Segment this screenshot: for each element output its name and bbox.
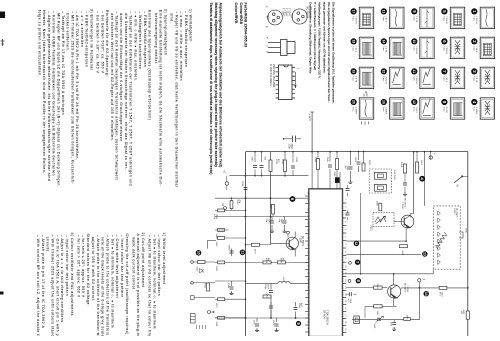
resistor R2574 [263, 258, 271, 264]
svg-text:11: 11 [240, 251, 244, 255]
svg-text:2569: 2569 [298, 303, 300, 309]
plug contact terminal a [223, 170, 229, 190]
svg-text:Mit Regler BP und Spule LZ die: Mit Regler BP und Spule LZ die Doppellin… [56, 13, 60, 187]
node test point 11 [240, 250, 246, 256]
resistor R2604 [400, 162, 407, 173]
wire IC right long [346, 253, 421, 255]
dashed box ceramic filters [369, 169, 395, 193]
svg-text:– Adjust to ● ○ ● to suit view: – Adjust to ● ○ ● to suit viewing condit… [60, 235, 64, 323]
svg-text:16: 16 [382, 100, 386, 104]
svg-text:7 64 V: 7 64 V [445, 76, 447, 83]
svg-text:H = zeilenfrequent, V = bildfr: H = zeilenfrequent, V = bildfrequent (oh… [313, 2, 317, 70]
oscillogram 20 [351, 98, 374, 119]
oscillogram 20 aux pin marks [362, 93, 369, 125]
svg-text:12: 12 [412, 100, 416, 104]
wire left vertical bus 1 [245, 152, 247, 337]
svg-text:2544: 2544 [314, 157, 316, 163]
resistor R2558 [215, 316, 225, 327]
svg-text:2574: 2574 [265, 258, 267, 264]
svg-text:5 ms: 5 ms [352, 107, 354, 112]
svg-text:2 160 H: 2 160 H [445, 16, 447, 24]
connector pin ticks bottom [197, 325, 206, 329]
svg-text:12: 12 [354, 242, 358, 246]
svg-text:1) White level adjustment: 1) White level adjustment [162, 233, 166, 285]
svg-text:2617: 2617 [420, 160, 422, 166]
svg-text:1) Weißabgleich: 1) Weißabgleich [189, 9, 193, 42]
wire horizontal y175.7 [229, 175, 308, 177]
svg-text:T 2606: T 2606 [401, 202, 403, 210]
svg-text:7 160 H: 7 160 H [385, 107, 387, 115]
svg-text:Checking the cut-off point (os: Checking the cut-off point (oscilloscope… [125, 234, 129, 335]
svg-text:1 5 TK: 1 5 TK [385, 46, 387, 53]
resistor R2533 [269, 159, 279, 172]
svg-text:2537: 2537 [269, 204, 271, 210]
svg-text:2533: 2533 [275, 159, 277, 165]
oscillogram 19 [351, 67, 374, 88]
svg-text:– ● ○ ● einstellen: – ● ○ ● einstellen [80, 11, 84, 47]
IC pinout DIP package IC 2520 [269, 64, 300, 100]
svg-text:5 ms: 5 ms [382, 16, 384, 21]
filter block F2613 [354, 316, 360, 324]
svg-text:– Abgleich gegebenenfalls wied: – Abgleich gegebenenfalls wiederholen, b… [47, 11, 51, 181]
svg-text:2 160 H: 2 160 H [354, 107, 356, 115]
svg-text:1 5 TK: 1 5 TK [415, 16, 417, 23]
svg-text:– Attach probe to the collecto: – Attach probe to the collector of the t… [96, 235, 100, 336]
node test point 4 [419, 176, 425, 182]
capacitor C2538 on bus [241, 181, 248, 190]
IC right pin terminals with circles [349, 260, 361, 265]
svg-text:Die Signalformen wurden mit ei: Die Signalformen wurden mit einem Oszill… [332, 2, 336, 104]
svg-text:5 ms: 5 ms [472, 16, 474, 21]
svg-text:5 ms: 5 ms [412, 76, 414, 81]
svg-text:2556: 2556 [215, 266, 217, 272]
svg-text:– Tastkopf am Pin 17 des IC TD: – Tastkopf am Pin 17 des IC TDA 3562 A a… [61, 11, 65, 115]
wire y283 [246, 282, 279, 284]
node test point 12 [354, 241, 360, 247]
svg-text:– Tastkopf an den Kollektor de: – Tastkopf an den Kollektor desjenigen T… [115, 11, 119, 180]
svg-text:Die angegebenen Spannungen sin: Die angegebenen Spannungen sind mit eine… [327, 2, 331, 102]
oscillogram 10 [411, 37, 434, 58]
wire loop right of DL [459, 232, 463, 238]
svg-text:L 4577: L 4577 [453, 208, 455, 215]
wire y262.4 mid [246, 261, 309, 263]
oscillogram 16 [381, 98, 404, 119]
resistor R2556 [215, 261, 225, 272]
black marker M [335, 177, 340, 183]
svg-text:– Set ● to minimum, nominal ○,: – Set ● to minimum, nominal ○, ● to maxi… [110, 235, 114, 328]
svg-text:Colour/RGB: Colour/RGB [239, 3, 243, 25]
wire +12V supply top bus [246, 151, 468, 153]
node test point 9 [296, 321, 301, 326]
svg-text:2 160 H: 2 160 H [475, 107, 477, 115]
oscillogram 12 [411, 98, 434, 119]
svg-text:– bei Geräten 5/20″: ca. 550 V: – bei Geräten 5/20″: ca. 550 V [100, 11, 104, 73]
svg-text:Standard values for the G2 vol: Standard values for the G2 voltage: [86, 234, 90, 307]
svg-text:20: 20 [351, 100, 355, 104]
svg-text:13: 13 [423, 252, 427, 256]
coil L2575 [278, 277, 290, 283]
plug contact terminal b [221, 203, 227, 210]
svg-text:5 ms: 5 ms [352, 46, 354, 51]
svg-text:Meßbedingungen: FUBK-Testbild,: Meßbedingungen: FUBK-Testbild, Netzspann… [318, 2, 322, 79]
resistor R2603 [362, 160, 370, 171]
transistor T2608 [388, 273, 408, 306]
node test point 14 [424, 291, 429, 296]
svg-text:– Am IC TDA 3562 A Pin 1 mit P: – Am IC TDA 3562 A Pin 1 mit Pin 5 und P… [75, 11, 79, 160]
terminal circle g [418, 279, 425, 282]
resistor R2534 [215, 229, 225, 240]
svg-text:– ● min. ○ mitte ● max. einste: – ● min. ○ mitte ● max. einstellen [133, 11, 137, 80]
note symbol left edge [1, 39, 5, 46]
svg-text:ändern und die Rückschläge der: ändern und die Rückschläge der 6-stufige… [119, 13, 123, 141]
resistor R2537 [269, 204, 275, 215]
op-amp/IC U2520 TDA 3562 A box [309, 189, 343, 337]
wire right vertical bus [467, 152, 469, 337]
wire +12V feed from card [311, 112, 313, 152]
oscillogram 18 [351, 37, 374, 58]
svg-text:+12 V: +12 V [308, 114, 312, 121]
svg-text:1 5 TK: 1 5 TK [354, 76, 356, 83]
svg-text:– ● max. ○ mitte ● max. einste: – ● max. ○ mitte ● max. einstellen [179, 11, 183, 81]
svg-text:– for sets ≤ 20″: approx. 550: – for sets ≤ 20″: approx. 550 V [81, 235, 85, 298]
svg-text:matic dark current control.: matic dark current control. [131, 237, 135, 291]
registration mark top-left edge [0, 12, 5, 19]
svg-text:Farbe/RGB 29504-055.33: Farbe/RGB 29504-055.33 [244, 3, 248, 48]
svg-text:Eine manuelle Einstellung ist: Eine manuelle Einstellung ist nicht mögl… [159, 10, 163, 186]
svg-text:die Schwarzwerte der flachen G: die Schwarzwerte der flachen Grauschräge… [124, 13, 128, 170]
wire horizontal y210.4 short [215, 209, 246, 211]
terminal circle f [208, 311, 216, 314]
svg-text:14: 14 [382, 40, 386, 44]
svg-text:FSS 2605: FSS 2605 [393, 170, 395, 181]
oscillogram 6 [441, 37, 464, 58]
capacitor C2568 [269, 302, 273, 318]
svg-text:1 5 TK: 1 5 TK [475, 76, 477, 83]
oscillogram 11 [411, 67, 434, 88]
plug contact d [191, 282, 215, 285]
svg-text:10: 10 [196, 251, 200, 255]
svg-text:5 ms: 5 ms [412, 107, 414, 112]
svg-text:18: 18 [351, 40, 355, 44]
svg-text:T 2587: T 2587 [282, 8, 286, 17]
oscillogram 14 [381, 37, 404, 58]
capacitor C2602 [344, 152, 353, 184]
svg-text:– Attach probe to the collecto: – Attach probe to the collectors of the … [106, 235, 110, 336]
resistor R2617 [416, 160, 422, 173]
resistor R2612 [374, 305, 383, 316]
plug contact e (square) [191, 296, 216, 300]
svg-text:BC 548 B: BC 548 B [301, 236, 303, 246]
capacitor C2567 [264, 283, 273, 318]
wire vertical x419.5 [419, 282, 421, 320]
capacitor C2566 [227, 245, 233, 256]
svg-text:3) Einstellungen im Farbkanal: 3) Einstellungen im Farbkanal [89, 9, 93, 70]
bottom wire y319.7 [352, 319, 420, 321]
svg-text:13: 13 [382, 10, 386, 14]
svg-text:15: 15 [382, 70, 386, 74]
resistor R2557 [215, 298, 225, 309]
oscillogram 2 [471, 37, 494, 58]
transistor T2547 [271, 232, 304, 257]
svg-text:– Kontrolle: FUBK-Testbild, Fa: – Kontrolle: FUBK-Testbild, Farbbalken u… [52, 11, 56, 176]
svg-text:5 ms: 5 ms [472, 107, 474, 112]
svg-text:– Weißabgleich kontrollieren: – Weißabgleich kontrollieren [138, 11, 142, 69]
trimmer 2523 dashed box [370, 212, 394, 231]
svg-text:5 ms: 5 ms [472, 76, 474, 81]
svg-text:– bei Geräten > 20″: ca. 660 V: – bei Geräten > 20″: ca. 660 V [96, 11, 100, 73]
capacitor C2571 [272, 318, 279, 332]
svg-text:folge zu prüfen und einzustell: folge zu prüfen und einzustellen. [37, 10, 41, 77]
capacitor C2570 [252, 318, 259, 332]
svg-text:2601: 2601 [354, 157, 356, 163]
svg-text:11: 11 [412, 70, 416, 74]
wire horizontal y216.5 [215, 216, 309, 218]
resistor R2609 [374, 284, 383, 290]
svg-text:2535: 2535 [281, 159, 283, 165]
svg-text:2553: 2553 [196, 267, 198, 273]
svg-text:2539: 2539 [295, 157, 297, 163]
node test point 13 [422, 251, 427, 256]
connector block symbol [190, 314, 195, 324]
oscillogram 13 [381, 7, 404, 28]
svg-text:2549: 2549 [227, 283, 229, 289]
oscillogram 7 [441, 67, 464, 88]
switch H1 [454, 175, 468, 187]
svg-text:note of the black levels of th: note of the black levels of the 6-stage … [101, 237, 105, 336]
svg-text:2) Spannpunktabgleich: 2) Spannpunktabgleich [163, 9, 167, 55]
oscillogram 5 [441, 7, 464, 28]
wire stub row [215, 280, 246, 282]
transistor pinout TO-92 case A (T 2547/T 2567/T 2587) [265, 6, 282, 28]
svg-text:7 160 H: 7 160 H [415, 76, 417, 84]
svg-text:– Set ● to maximum, nominal ○,: – Set ● to maximum, nominal ○, ● to maxi… [152, 235, 156, 329]
capacitor C2616 [346, 185, 350, 196]
svg-text:– Input colour bar test patter: – Input colour bar test pattern [157, 235, 161, 297]
svg-text:circuits.: circuits. [46, 237, 50, 254]
svg-text:2534: 2534 [215, 234, 217, 240]
svg-text:– Check white level adjustment: – Check white level adjustment [115, 235, 119, 298]
svg-text:2566: 2566 [227, 245, 229, 251]
svg-text:5 ms: 5 ms [442, 46, 444, 51]
svg-text:7 64 V: 7 64 V [354, 46, 356, 53]
svg-text:29-504: 29-504 [322, 310, 326, 319]
wire stub row [215, 298, 246, 300]
svg-text:7 160 H: 7 160 H [445, 46, 447, 54]
svg-text:sind.: sind. [170, 13, 174, 23]
svg-text:5 ms: 5 ms [442, 16, 444, 21]
wire stub row [215, 261, 246, 263]
diode D2554 [200, 269, 204, 273]
trimmer C2613 [373, 316, 384, 329]
svg-text:7 64 V: 7 64 V [385, 16, 387, 23]
svg-text:2532: 2532 [236, 200, 238, 206]
transistor T2606 [394, 198, 414, 242]
terminal above T2547 [287, 231, 290, 238]
svg-text:10: 10 [412, 40, 416, 44]
svg-text:2572: 2572 [254, 249, 256, 255]
svg-text:– Adjust VB and VG controls so: – Adjust VB and VG controls so that no c… [148, 235, 152, 336]
node test point 6 [290, 196, 296, 202]
oscillogram 8 [441, 98, 464, 119]
wire stub row [215, 317, 246, 319]
svg-text:– FUBK-Testbild einspeisen: – FUBK-Testbild einspeisen [85, 11, 89, 67]
svg-text:A manual adjustment is not pos: A manual adjustment is not possible as t… [136, 234, 140, 337]
wire IC pin to T2606 emitter [346, 240, 406, 242]
capacitor C2601 [354, 152, 361, 173]
resistor R2532 [230, 200, 240, 209]
svg-text:signal gemessen und können um: signal gemessen und können um ±20 % abwe… [322, 2, 326, 74]
svg-text:5 ms: 5 ms [442, 107, 444, 112]
svg-text:2536: 2536 [215, 242, 217, 248]
capacitor C2611 [346, 292, 356, 304]
capacitor C2563 22n [265, 217, 274, 233]
svg-text:2571: 2571 [272, 320, 274, 326]
resistor R2606 [376, 201, 382, 211]
resistor R2544 [314, 157, 320, 170]
IC top pin 1 stub [311, 152, 313, 189]
svg-text:5 ms: 5 ms [352, 76, 354, 81]
oscillogram 4 [471, 98, 494, 119]
IC left pins [305, 195, 308, 197]
oscillogram 3 [471, 67, 494, 88]
svg-text:Taratura di adattamento dopo l: Taratura di adattamento dopo la sostituz… [209, 3, 213, 175]
svg-text:+D: +D [223, 170, 226, 173]
svg-text:2575: 2575 [282, 277, 284, 283]
svg-text:Colore/RVB: Colore/RVB [234, 3, 238, 24]
svg-text:2576: 2576 [280, 258, 282, 264]
capacitor C2569 [294, 302, 303, 318]
svg-text:Kontrolle des Spannpunktes (Os: Kontrolle des Spannpunktes (Oszilloskop … [148, 10, 152, 120]
svg-text:7 160 H: 7 160 H [354, 16, 356, 24]
resistor R2607 [400, 245, 408, 256]
svg-text:14: 14 [424, 292, 428, 296]
svg-text:– FUBK-Testbild einspeisen: – FUBK-Testbild einspeisen [184, 11, 188, 67]
resistor R2610 [438, 286, 447, 297]
resistor R2572 [252, 243, 260, 254]
svg-text:brücken entfernen.: brücken entfernen. [66, 13, 70, 51]
svg-text:– for sets > 20″: approx. 660: – for sets > 20″: approx. 660 V [76, 235, 80, 298]
svg-text:den höchsten Wert hat und mit: den höchsten Wert hat und mit G2-Regler … [110, 13, 114, 141]
svg-text:7 64 V: 7 64 V [475, 46, 477, 53]
svg-text:adjust to 165 V with G2 contro: adjust to 165 V with G2 control. [91, 237, 95, 302]
wire vertical x413.7 [413, 152, 415, 214]
svg-text:– On the IC TDA 3562 A, short: – On the IC TDA 3562 A, short circuit pi… [55, 235, 59, 336]
wire bottom bus y318 [215, 317, 309, 319]
svg-text:BC 558 B: BC 558 B [305, 7, 309, 19]
resistor R2573 [263, 293, 271, 299]
oscillogram 15 [381, 67, 404, 88]
svg-text:Hinweis: Nach jedem Kartentaus: Hinweis: Nach jedem Kartentausch sind al… [42, 10, 46, 174]
svg-text:T 2547: T 2547 [299, 236, 301, 244]
capacitor C2561 5n6 [260, 152, 266, 176]
resistor R2615 [404, 315, 411, 321]
svg-text:2560: 2560 [251, 157, 253, 163]
registration dash bottom-left edge [0, 292, 4, 295]
svg-text:2609: 2609 [376, 284, 378, 290]
svg-text:2606: 2606 [376, 201, 378, 207]
svg-text:5 ms: 5 ms [472, 46, 474, 51]
svg-text:5 ms: 5 ms [412, 46, 414, 51]
capacitor C2560 [251, 152, 257, 176]
svg-text:– Input colour bar test patter: – Input colour bar test pattern [65, 235, 69, 297]
svg-text:– With trimmer 2523 adjust the: – With trimmer 2523 adjust the until col… [51, 235, 55, 336]
svg-text:– Regler VB und VG so einstell: – Regler VB und VG so einstellen, daß ke… [174, 11, 178, 188]
svg-text:2612: 2612 [376, 311, 378, 317]
svg-text:19: 19 [351, 70, 355, 74]
terminal small circle +12V [429, 151, 435, 160]
plug contact c [191, 261, 194, 264]
svg-text:– Tastkopf an den Kollektoren: – Tastkopf an den Kollektoren der Transi… [129, 11, 133, 186]
svg-text:17: 17 [351, 10, 355, 14]
wire y273.8 [343, 273, 433, 275]
svg-text:100µ: 100µ [264, 284, 266, 290]
resistor R2536 [215, 237, 225, 248]
svg-text:2604: 2604 [400, 162, 402, 168]
svg-text:2570: 2570 [252, 320, 254, 326]
svg-text:Anpassungsabgleich bei Austaus: Anpassungsabgleich bei Austausch der Ste… [219, 3, 223, 168]
svg-text:Richtwerte für die G2-Spannung: Richtwerte für die G2-Spannung: [105, 10, 109, 77]
IC right pins [343, 202, 346, 204]
svg-text:5 ms: 5 ms [382, 46, 384, 51]
node test point 10 [196, 250, 202, 256]
svg-text:2573: 2573 [265, 293, 267, 299]
resistor R2546 [333, 159, 338, 178]
svg-text:7 64 V: 7 64 V [415, 107, 417, 114]
svg-text:2546: 2546 [333, 172, 335, 178]
svg-text:2538: 2538 [241, 181, 243, 187]
svg-text:5 ms: 5 ms [382, 76, 384, 81]
svg-text:100n: 100n [288, 144, 290, 150]
resistor R2553 [196, 261, 206, 273]
svg-text:Matching alignment necessary w: Matching alignment necessary when replac… [214, 3, 218, 168]
svg-text:– Mit Trimmer 2523 die durchla: – Mit Trimmer 2523 die durchlaufenden Fa… [70, 11, 74, 184]
svg-text:5 ms: 5 ms [352, 16, 354, 21]
svg-text:2603: 2603 [368, 160, 370, 166]
svg-text:2545: 2545 [326, 157, 328, 163]
resistor R2531 [213, 209, 225, 220]
dashed box delay line DL3123 [433, 206, 460, 269]
svg-text:2557: 2557 [215, 303, 217, 309]
wire vertical branch x270 [270, 152, 272, 244]
oscillogram 1 [471, 7, 494, 28]
oscillogram 17 [351, 7, 374, 28]
capacitor C2562 100n [283, 136, 301, 150]
svg-text:2) Cut-off point adjustment: 2) Cut-off point adjustment [141, 233, 145, 288]
svg-text:– Attach probe to pin 17 of th: – Attach probe to pin 17 of the IC TDA 3… [41, 235, 45, 329]
capacitor C2605 [403, 173, 407, 196]
shield box corner [207, 240, 209, 249]
svg-text:2607: 2607 [401, 250, 403, 256]
svg-text:IC 2520 TDA 3562 A: IC 2520 TDA 3562 A [269, 64, 272, 86]
svg-text:7 160 H: 7 160 H [475, 16, 477, 24]
svg-text:1 5 TK: 1 5 TK [445, 107, 447, 114]
oscillogram 9 [411, 7, 434, 28]
wire right mid y287.9 [401, 287, 468, 289]
wire vertical x424.5 to delay line [424, 152, 426, 206]
resistor R2535 [281, 159, 287, 172]
svg-text:2 160 H: 2 160 H [415, 46, 417, 54]
svg-text:kelstromregelung besitzt.: kelstromregelung besitzt. [154, 13, 158, 65]
svg-text:2 160 H: 2 160 H [385, 76, 387, 84]
resistor R2555 [204, 283, 210, 291]
capacitor C2545 [326, 152, 332, 189]
resistor R2576 [278, 258, 286, 264]
transistor pinout TO-126 package [266, 37, 296, 56]
resistor R3557 on right bus [460, 310, 470, 320]
svg-text:3) Colour oscillator and PAL a: 3) Colour oscillator and PAL adjustments [70, 233, 74, 316]
svg-text:– With control BP and coil LZ,: – With control BP and coil LZ, adjust th… [36, 235, 40, 336]
capacitor C2565 [278, 217, 287, 233]
